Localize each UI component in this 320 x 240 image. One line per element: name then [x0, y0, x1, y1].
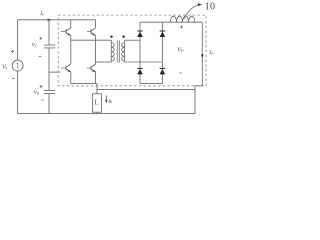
wire top rail input [18, 19, 96, 21]
dashed module box 10 [58, 15, 206, 86]
minus V0 [41, 99, 44, 101]
wire return line [97, 89, 195, 91]
wire output right drop [201, 22, 203, 86]
transistor Q4 (bottom right) [87, 64, 96, 84]
plus Vo [180, 26, 183, 29]
transistor Q3 (bottom left) [61, 64, 71, 84]
wire output bottom jog [195, 86, 202, 114]
svg-text:Is: Is [39, 11, 44, 17]
minus V1 [39, 56, 42, 58]
minus Vo [179, 72, 182, 74]
wire rectifier left leg [139, 22, 141, 83]
sensor box L [93, 94, 102, 112]
diode D3 (bottom left) [137, 68, 143, 75]
leader arrow to 10 [184, 5, 199, 19]
wire Is arrowhead [48, 19, 52, 22]
svg-text:Io: Io [208, 50, 214, 56]
wire capacitor midpoint stub [49, 71, 61, 73]
svg-text:V0: V0 [34, 90, 39, 96]
wire bottom rail [18, 113, 195, 115]
wire L box drop [96, 84, 98, 114]
minus Vs [12, 78, 15, 80]
svg-text:L: L [94, 98, 99, 107]
diode D2 (top right) [160, 31, 166, 38]
svg-text:Vs: Vs [2, 64, 8, 70]
transformer core [117, 41, 119, 63]
capacitor C0 (V0) [44, 91, 55, 94]
wire secondary bottom tap [125, 61, 163, 63]
svg-text:10: 10 [205, 2, 216, 13]
wire rectifier top rail [140, 21, 202, 23]
wire rectifier right leg [161, 22, 163, 83]
svg-text:Vo: Vo [177, 47, 184, 54]
polarity dot secondary [122, 36, 124, 38]
wire capacitor branch vertical [48, 20, 50, 114]
transistor Q2 (top right) [87, 20, 96, 64]
wire Vs branch vertical [17, 20, 19, 114]
capacitor C1 (V1) [44, 45, 55, 48]
svg-text:Ib: Ib [107, 99, 113, 105]
polarity dot primary [110, 36, 112, 38]
source Vs [12, 60, 23, 71]
plus V1 [39, 37, 42, 40]
wire secondary top tap [125, 39, 140, 41]
plus V0 [40, 85, 43, 88]
Io arrowhead [201, 54, 204, 58]
transistor Q1 (top left) [61, 20, 71, 64]
diode D4 (bottom right) [160, 68, 166, 75]
wire bridge bottom rail [71, 83, 97, 85]
transformer T1 secondary [124, 40, 126, 62]
diode D1 (top left) [137, 31, 143, 38]
plus Vs [11, 50, 14, 53]
wire primary top tap [71, 39, 112, 41]
wire rectifier bottom rail [140, 83, 162, 85]
Ib arrow [105, 95, 107, 100]
inductor Lo output choke [170, 16, 194, 22]
wire primary bottom tap [96, 61, 112, 63]
transformer T1 primary [110, 40, 112, 62]
svg-text:V1: V1 [32, 43, 37, 49]
